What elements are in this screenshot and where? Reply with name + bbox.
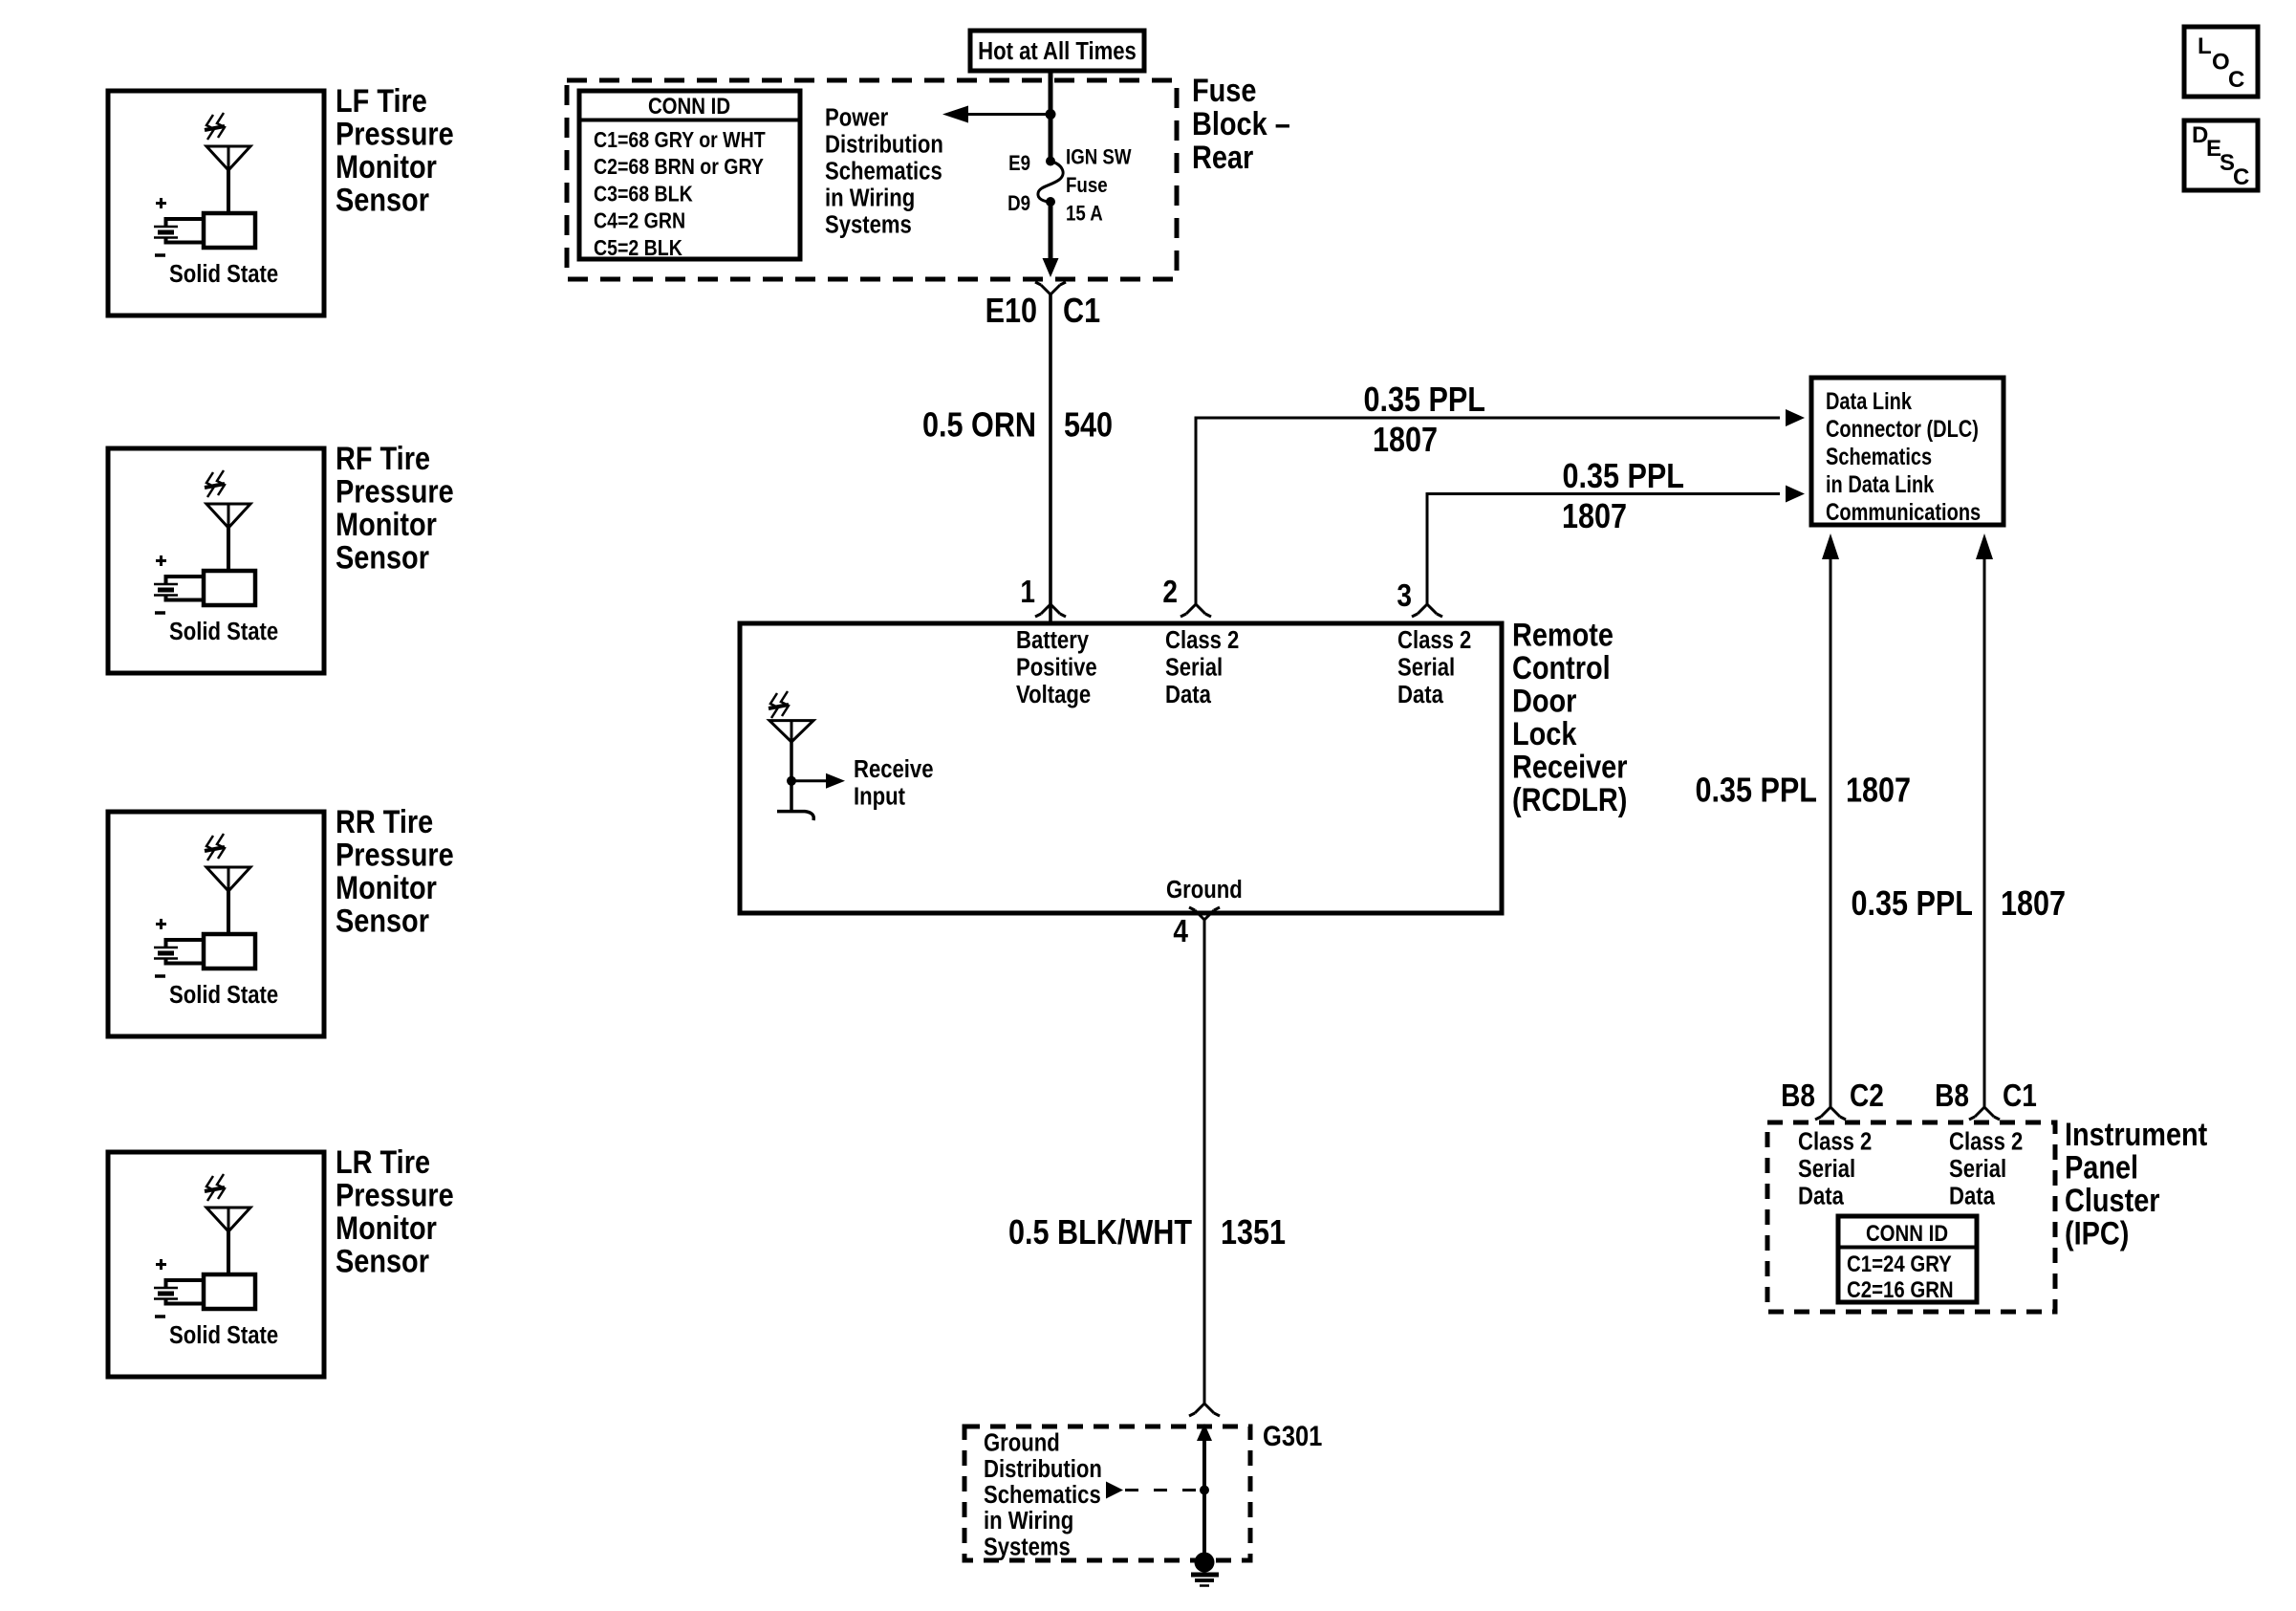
svg-text:Monitor: Monitor bbox=[336, 869, 437, 906]
wire into G301 with up arrow bbox=[1197, 1424, 1212, 1441]
svg-text:B8: B8 bbox=[1781, 1078, 1815, 1114]
svg-text:540: 540 bbox=[1064, 406, 1113, 445]
svg-text:IGN SW: IGN SW bbox=[1066, 146, 1132, 169]
svg-text:(IPC): (IPC) bbox=[2065, 1214, 2129, 1252]
svg-text:Data: Data bbox=[1397, 681, 1443, 708]
antenna (RF sensor) bbox=[206, 472, 214, 497]
svg-text:Instrument: Instrument bbox=[2065, 1116, 2208, 1153]
svg-text:Solid State: Solid State bbox=[169, 618, 278, 645]
svg-text:Voltage: Voltage bbox=[1016, 681, 1091, 708]
svg-text:C2=16 GRN: C2=16 GRN bbox=[1847, 1276, 1954, 1302]
battery (RR sensor) bbox=[156, 923, 166, 925]
svg-text:E9: E9 bbox=[1008, 153, 1030, 176]
antenna (RCDLR) bbox=[770, 693, 778, 718]
svg-text:C4=2 GRN: C4=2 GRN bbox=[594, 208, 685, 233]
svg-text:C2=68 BRN or GRY: C2=68 BRN or GRY bbox=[594, 155, 764, 180]
svg-text:C3=68 BLK: C3=68 BLK bbox=[594, 182, 693, 207]
connector E10 C1 bbox=[1035, 282, 1066, 294]
electronics box (RR sensor) bbox=[204, 934, 255, 969]
svg-text:0.35 PPL: 0.35 PPL bbox=[1851, 885, 1973, 924]
ground hook (RCDLR antenna) bbox=[777, 812, 813, 820]
svg-text:LF Tire: LF Tire bbox=[336, 82, 427, 120]
dashed branch to Ground Distribution bbox=[1106, 1482, 1123, 1499]
svg-text:Schematics: Schematics bbox=[984, 1481, 1101, 1509]
Fuse Block - Rear dashed box bbox=[567, 80, 1177, 279]
svg-text:Data: Data bbox=[1949, 1183, 1995, 1210]
svg-text:Remote: Remote bbox=[1512, 616, 1614, 653]
svg-text:in Wiring: in Wiring bbox=[825, 185, 915, 212]
svg-text:L: L bbox=[2198, 33, 2212, 59]
RF Tire Pressure Monitor Sensor box bbox=[108, 448, 324, 673]
svg-text:4: 4 bbox=[1173, 914, 1188, 949]
svg-text:RR Tire: RR Tire bbox=[336, 803, 433, 840]
svg-text:Class 2: Class 2 bbox=[1397, 626, 1471, 654]
svg-text:(RCDLR): (RCDLR) bbox=[1512, 781, 1627, 818]
svg-text:Monitor: Monitor bbox=[336, 148, 437, 185]
svg-text:Fuse: Fuse bbox=[1192, 72, 1256, 109]
svg-text:Sensor: Sensor bbox=[336, 538, 429, 576]
antenna (RR sensor) bbox=[206, 836, 214, 860]
electronics box (RF sensor) bbox=[204, 571, 255, 605]
svg-text:Input: Input bbox=[854, 783, 905, 811]
svg-text:B8: B8 bbox=[1935, 1078, 1969, 1114]
svg-text:Systems: Systems bbox=[825, 211, 912, 239]
svg-text:Pressure: Pressure bbox=[336, 836, 454, 873]
battery (RF sensor) bbox=[156, 559, 166, 562]
svg-text:Receiver: Receiver bbox=[1512, 748, 1627, 785]
svg-text:Class 2: Class 2 bbox=[1165, 626, 1239, 654]
svg-text:Pressure: Pressure bbox=[336, 1176, 454, 1213]
G301 dashed box bbox=[964, 1426, 1250, 1560]
svg-text:Sensor: Sensor bbox=[336, 902, 429, 939]
wire: Class 2 serial data pin 3 to DLC bbox=[1427, 494, 1780, 605]
svg-text:0.35 PPL: 0.35 PPL bbox=[1562, 458, 1684, 496]
svg-text:Schematics: Schematics bbox=[825, 158, 942, 185]
svg-text:Serial: Serial bbox=[1397, 654, 1455, 682]
Hot at All Times box bbox=[970, 31, 1144, 71]
CONN ID table (IPC) bbox=[1838, 1216, 1977, 1302]
svg-text:Solid State: Solid State bbox=[169, 1321, 278, 1349]
svg-text:1807: 1807 bbox=[1562, 498, 1627, 536]
svg-text:E10: E10 bbox=[986, 293, 1037, 331]
electronics box (LF sensor) bbox=[204, 213, 255, 248]
wire: fuse output bbox=[1049, 202, 1053, 260]
svg-text:Solid State: Solid State bbox=[169, 260, 278, 288]
svg-text:Class 2: Class 2 bbox=[1798, 1128, 1872, 1156]
svg-text:Sensor: Sensor bbox=[336, 1242, 429, 1279]
svg-text:Data: Data bbox=[1798, 1183, 1844, 1210]
DESC box bbox=[2184, 120, 2258, 190]
connector at G301 bbox=[1189, 1404, 1220, 1416]
svg-text:C1=24 GRY: C1=24 GRY bbox=[1847, 1251, 1952, 1276]
svg-text:Positive: Positive bbox=[1016, 654, 1097, 682]
svg-text:Pressure: Pressure bbox=[336, 115, 454, 152]
svg-text:Battery: Battery bbox=[1016, 626, 1090, 654]
svg-text:Sensor: Sensor bbox=[336, 181, 429, 218]
svg-text:Rear: Rear bbox=[1192, 139, 1253, 176]
svg-text:D9: D9 bbox=[1007, 193, 1030, 216]
svg-text:0.5 ORN: 0.5 ORN bbox=[922, 406, 1036, 445]
junction dot (G301) bbox=[1200, 1486, 1209, 1495]
svg-text:Serial: Serial bbox=[1798, 1155, 1855, 1183]
CONN ID table (fuse block) bbox=[579, 91, 800, 259]
svg-text:3: 3 bbox=[1397, 578, 1412, 614]
Instrument Panel Cluster (IPC) dashed box bbox=[1767, 1122, 2055, 1312]
svg-text:Monitor: Monitor bbox=[336, 1209, 437, 1247]
svg-text:Lock: Lock bbox=[1512, 715, 1577, 752]
wire: 0.5 ORN 540 bbox=[1049, 294, 1052, 623]
svg-text:Control: Control bbox=[1512, 649, 1611, 686]
arrow to Power Distribution bbox=[968, 113, 1051, 116]
svg-text:Ground: Ground bbox=[1166, 876, 1243, 903]
svg-text:2: 2 bbox=[1162, 575, 1178, 610]
svg-text:C1: C1 bbox=[2003, 1078, 2037, 1114]
svg-text:C: C bbox=[2233, 164, 2249, 190]
svg-text:1807: 1807 bbox=[1846, 772, 1911, 810]
svg-text:1807: 1807 bbox=[2001, 885, 2066, 924]
svg-text:Serial: Serial bbox=[1949, 1155, 2006, 1183]
RR Tire Pressure Monitor Sensor box bbox=[108, 812, 324, 1036]
battery (LF sensor) bbox=[156, 202, 166, 205]
svg-text:C5=2 BLK: C5=2 BLK bbox=[594, 235, 682, 260]
svg-text:Connector (DLC): Connector (DLC) bbox=[1826, 416, 1979, 443]
electronics box (LR sensor) bbox=[204, 1274, 255, 1309]
LF Tire Pressure Monitor Sensor box bbox=[108, 91, 324, 316]
svg-text:Solid State: Solid State bbox=[169, 981, 278, 1009]
svg-text:Data: Data bbox=[1165, 681, 1211, 708]
Remote Control Door Lock Receiver (RCDLR) box bbox=[740, 623, 1502, 913]
svg-text:1: 1 bbox=[1020, 575, 1035, 610]
svg-text:LR Tire: LR Tire bbox=[336, 1143, 430, 1181]
svg-text:Data Link: Data Link bbox=[1826, 388, 1912, 415]
svg-text:in Data Link: in Data Link bbox=[1826, 471, 1935, 498]
LR Tire Pressure Monitor Sensor box bbox=[108, 1152, 324, 1377]
antenna (LF sensor) bbox=[206, 115, 214, 140]
svg-text:0.35 PPL: 0.35 PPL bbox=[1695, 772, 1817, 810]
antenna (LR sensor) bbox=[206, 1176, 214, 1201]
svg-text:Systems: Systems bbox=[984, 1534, 1071, 1561]
svg-text:Door: Door bbox=[1512, 682, 1576, 719]
svg-text:CONN ID: CONN ID bbox=[1866, 1220, 1948, 1246]
svg-text:C1: C1 bbox=[1063, 293, 1100, 331]
battery (LR sensor) bbox=[156, 1263, 166, 1266]
svg-text:Ground: Ground bbox=[984, 1429, 1060, 1457]
wire: IPC C1 B8 to DLC bbox=[1983, 558, 1986, 1107]
fuse IGN SW 15A bbox=[1046, 157, 1055, 166]
svg-text:Block –: Block – bbox=[1192, 105, 1290, 142]
svg-text:C2: C2 bbox=[1850, 1078, 1884, 1114]
junction dot bbox=[1046, 109, 1056, 120]
svg-text:in Wiring: in Wiring bbox=[984, 1508, 1073, 1535]
svg-text:RF Tire: RF Tire bbox=[336, 440, 430, 477]
Data Link Connector (DLC) box bbox=[1811, 378, 2004, 525]
svg-text:1807: 1807 bbox=[1373, 422, 1438, 460]
svg-text:Distribution: Distribution bbox=[984, 1455, 1102, 1483]
receive input arrow bbox=[787, 776, 796, 786]
svg-text:15 A: 15 A bbox=[1066, 203, 1103, 226]
wire: Class 2 serial data pin 2 to DLC bbox=[1196, 418, 1780, 604]
svg-text:Power: Power bbox=[825, 104, 889, 132]
svg-text:Hot at All Times: Hot at All Times bbox=[978, 37, 1137, 65]
svg-text:Pressure: Pressure bbox=[336, 472, 454, 510]
svg-text:Monitor: Monitor bbox=[336, 506, 437, 543]
LOC box bbox=[2184, 27, 2258, 97]
ground G301 bbox=[1195, 1553, 1215, 1573]
svg-text:Fuse: Fuse bbox=[1066, 175, 1108, 198]
wire: IPC C2 B8 to DLC bbox=[1830, 558, 1832, 1107]
svg-text:Distribution: Distribution bbox=[825, 131, 943, 159]
svg-text:Serial: Serial bbox=[1165, 654, 1223, 682]
svg-text:Class 2: Class 2 bbox=[1949, 1128, 2023, 1156]
wire: 0.5 BLK/WHT 1351 bbox=[1203, 920, 1206, 1404]
svg-text:Communications: Communications bbox=[1826, 499, 1981, 526]
svg-text:Schematics: Schematics bbox=[1826, 444, 1932, 470]
svg-text:Cluster: Cluster bbox=[2065, 1182, 2160, 1219]
svg-text:0.35 PPL: 0.35 PPL bbox=[1363, 381, 1485, 420]
svg-text:G301: G301 bbox=[1263, 1420, 1322, 1451]
wire: battery feed from Hot at All Times bbox=[1049, 71, 1053, 161]
svg-text:C: C bbox=[2228, 67, 2244, 93]
svg-text:O: O bbox=[2212, 50, 2230, 76]
svg-text:C1=68 GRY or WHT: C1=68 GRY or WHT bbox=[594, 128, 766, 153]
svg-text:Receive: Receive bbox=[854, 755, 933, 783]
svg-text:Panel: Panel bbox=[2065, 1148, 2138, 1186]
svg-text:CONN ID: CONN ID bbox=[648, 93, 730, 119]
svg-text:1351: 1351 bbox=[1221, 1214, 1286, 1252]
svg-text:0.5 BLK/WHT: 0.5 BLK/WHT bbox=[1008, 1214, 1193, 1252]
